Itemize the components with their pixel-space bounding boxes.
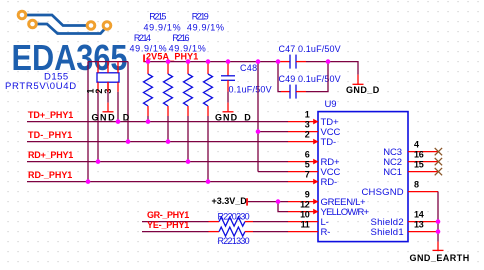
no-connect X pin 16	[435, 158, 442, 165]
svg-text:R216: R216	[172, 33, 189, 43]
ground GND_EARTH	[433, 242, 444, 251]
junction on bus at R219	[206, 59, 211, 64]
logo pad 2	[29, 20, 37, 28]
pin 8 CHSGND	[408, 191, 438, 193]
junction TD+ at D155	[116, 119, 121, 124]
svg-text:R220330: R220330	[218, 212, 250, 222]
svg-text:R215: R215	[149, 12, 166, 22]
svg-text:R221330: R221330	[218, 236, 250, 246]
wire +3.3V_D to pin9	[248, 201, 288, 203]
pin 15 NC1	[408, 171, 438, 173]
pin 7 RD-	[288, 179, 318, 185]
wire D155 right drop to TD-	[127, 62, 129, 142]
logo trace lower	[33, 24, 108, 34]
svg-text:NC1: NC1	[383, 167, 402, 178]
svg-text:16: 16	[414, 149, 424, 159]
svg-text:YE-_PHY1: YE-_PHY1	[147, 220, 189, 230]
svg-text:GND_D: GND_D	[346, 85, 380, 95]
svg-text:8: 8	[414, 179, 419, 189]
pin 9 GREEN/L+	[288, 199, 318, 205]
svg-text:TD-: TD-	[321, 137, 337, 148]
svg-text:+3.3V_D: +3.3V_D	[212, 196, 248, 206]
junction VCC pin3	[256, 129, 261, 134]
junction on bus at R216	[186, 59, 191, 64]
svg-text:U9: U9	[325, 99, 337, 110]
capacitor C49	[281, 85, 306, 99]
svg-text:EDA365: EDA365	[12, 37, 128, 78]
wire net TD-_PHY1	[27, 141, 288, 143]
svg-text:9: 9	[305, 189, 310, 199]
ground GND_D under D155	[103, 82, 114, 112]
capacitor C47	[278, 55, 306, 69]
wire D155 pin3 drop to TD+	[117, 92, 119, 122]
power port +3.3V_D bar	[246, 198, 248, 205]
junction on bus at C49	[276, 59, 281, 64]
svg-text:49.9/1%: 49.9/1%	[187, 22, 224, 32]
wire VCC pin5 link	[258, 171, 288, 173]
ground GND_D right	[353, 75, 364, 85]
pin 2 TD-	[288, 139, 318, 145]
resistor R216	[184, 62, 193, 162]
wire VCC pin3 link	[258, 131, 288, 133]
pin 16 NC2	[408, 161, 438, 163]
ground GND_D under C48	[223, 103, 234, 112]
wire D155 left drop to RD-	[87, 62, 89, 182]
junction at C49 right riser	[326, 59, 331, 64]
junction on bus at VCC riser	[256, 59, 261, 64]
svg-text:C47 0.1uF/50V: C47 0.1uF/50V	[279, 44, 341, 54]
svg-text:Shield1: Shield1	[371, 227, 404, 238]
wire net GR-_PHY1	[142, 221, 209, 223]
junction RD+ at R216	[186, 159, 191, 164]
pin 5 VCC	[288, 171, 318, 173]
pin 1 TD+	[288, 119, 318, 125]
junction on bus at R214	[146, 59, 151, 64]
wire net YE-_PHY1	[142, 231, 209, 233]
resistor R219	[204, 62, 213, 182]
svg-text:1: 1	[305, 109, 310, 119]
junction RD- at R219	[206, 179, 211, 184]
svg-text:CHSGND: CHSGND	[362, 187, 404, 198]
wire pin12 branch	[278, 202, 288, 212]
capacitor C48	[221, 62, 235, 103]
no-connect X pin 15	[435, 168, 442, 175]
pin 14 Shield2	[408, 221, 438, 223]
pin 11 R-	[288, 231, 318, 233]
pin 12 YELLOW/R+	[288, 209, 318, 215]
node +2V5A_PHY1 label tick	[143, 55, 145, 62]
svg-text:TD-_PHY1: TD-_PHY1	[28, 130, 72, 140]
svg-text:5: 5	[305, 159, 310, 169]
svg-text:RD+_PHY1: RD+_PHY1	[28, 150, 73, 160]
junction TD- at D155	[126, 139, 131, 144]
junction TD- at R215	[166, 139, 171, 144]
wire +2V5A_PHY1 bus	[144, 61, 279, 63]
resistor R215	[164, 62, 173, 142]
svg-text:13: 13	[414, 219, 424, 229]
svg-text:14: 14	[414, 209, 424, 219]
junction Shield1	[436, 229, 441, 234]
svg-text:R-: R-	[321, 227, 331, 238]
wire CHSGND drop	[437, 192, 439, 242]
wire net RD+_PHY1	[27, 161, 288, 163]
wire net RD-_PHY1	[27, 181, 288, 183]
svg-text:RD-: RD-	[321, 177, 338, 188]
svg-text:7: 7	[305, 169, 310, 179]
svg-text:49.9/1%: 49.9/1%	[144, 22, 181, 32]
junction RD+ at D155	[96, 159, 101, 164]
svg-text:11: 11	[301, 219, 310, 229]
svg-text:2: 2	[305, 129, 310, 139]
svg-text:49.9/1%: 49.9/1%	[130, 44, 167, 54]
op-amp U9 transformer box	[318, 112, 408, 242]
pin 4 NC3	[408, 151, 438, 153]
svg-text:10: 10	[300, 209, 310, 219]
junction Shield2	[436, 219, 441, 224]
svg-text:R219: R219	[192, 12, 209, 22]
logo pad 1	[18, 11, 26, 19]
pin 6 RD+	[288, 159, 318, 165]
resistor R214	[144, 62, 153, 122]
svg-text:RD-_PHY1: RD-_PHY1	[28, 170, 72, 180]
logo pad 4	[103, 22, 111, 30]
junction on bus at C48	[226, 59, 231, 64]
no-connect X pin 4	[435, 148, 442, 155]
svg-text:4: 4	[414, 139, 419, 149]
wire C47 to ground	[306, 62, 358, 75]
svg-text:GND_EARTH: GND_EARTH	[410, 253, 470, 263]
wire net TD+_PHY1	[27, 121, 288, 123]
logo pad 3	[87, 22, 95, 30]
wire C49 left drop	[278, 62, 281, 92]
svg-text:12: 12	[300, 199, 310, 209]
svg-text:R214: R214	[134, 33, 151, 43]
diode array D155	[97, 62, 119, 92]
wire D155 top	[88, 61, 128, 63]
resistor R220	[209, 217, 289, 226]
pin 10 L-	[288, 221, 318, 223]
logo trace upper	[22, 15, 91, 26]
junction on bus at R215	[166, 59, 171, 64]
svg-text:PRTR5V\0U4D: PRTR5V\0U4D	[5, 81, 76, 92]
svg-text:3: 3	[305, 119, 310, 129]
wire C49 right riser	[306, 62, 328, 92]
svg-text:6: 6	[305, 149, 310, 159]
junction TD+ at R214	[146, 119, 151, 124]
svg-text:GR-_PHY1: GR-_PHY1	[147, 210, 189, 220]
svg-text:49.9/1%: 49.9/1%	[169, 44, 206, 54]
svg-text:15: 15	[414, 159, 424, 169]
resistor R221	[209, 227, 289, 236]
junction RD- at D155	[86, 179, 91, 184]
wire VCC riser	[257, 62, 259, 172]
svg-text:TD+_PHY1: TD+_PHY1	[28, 110, 73, 120]
pin 13 Shield1	[408, 231, 438, 233]
svg-text:C49 0.1uF/50V: C49 0.1uF/50V	[279, 74, 341, 84]
svg-text:0.1uF/50V: 0.1uF/50V	[229, 84, 272, 94]
wire D155 pin1 drop to RD+	[97, 92, 99, 162]
junction +3.3V_D branch	[276, 199, 281, 204]
pin 3 VCC	[288, 131, 318, 133]
svg-text:C48: C48	[240, 63, 257, 73]
